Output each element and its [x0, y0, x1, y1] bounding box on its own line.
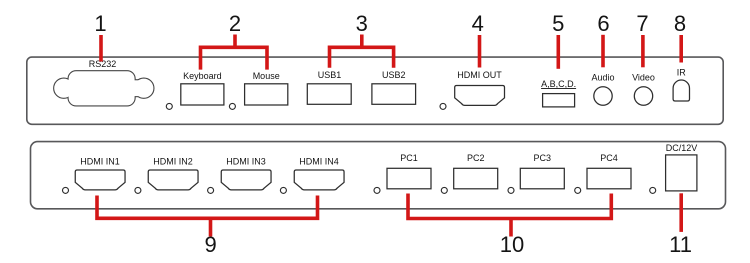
svg-text:USB2: USB2: [382, 70, 406, 80]
svg-text:7: 7: [636, 11, 648, 36]
svg-text:PC1: PC1: [400, 153, 418, 163]
svg-text:PC4: PC4: [600, 153, 618, 163]
svg-text:HDMI IN1: HDMI IN1: [80, 156, 120, 166]
svg-text:PC3: PC3: [534, 153, 552, 163]
svg-text:Keyboard: Keyboard: [183, 71, 222, 81]
svg-text:5: 5: [552, 11, 564, 36]
svg-text:USB1: USB1: [318, 70, 342, 80]
svg-text:Video: Video: [632, 73, 655, 83]
svg-text:1: 1: [94, 11, 106, 36]
svg-text:3: 3: [356, 11, 368, 36]
svg-text:HDMI IN4: HDMI IN4: [299, 156, 339, 166]
svg-text:4: 4: [472, 11, 484, 36]
svg-text:Audio: Audio: [591, 73, 614, 83]
svg-text:HDMI IN3: HDMI IN3: [226, 156, 266, 166]
svg-text:IR: IR: [677, 67, 687, 77]
svg-text:A,B,C,D.: A,B,C,D.: [541, 79, 576, 89]
svg-text:11: 11: [669, 232, 692, 257]
svg-text:9: 9: [204, 232, 216, 257]
svg-text:PC2: PC2: [467, 153, 485, 163]
svg-text:2: 2: [229, 11, 241, 36]
svg-text:HDMI IN2: HDMI IN2: [153, 156, 193, 166]
svg-text:HDMI OUT: HDMI OUT: [457, 70, 502, 80]
svg-text:10: 10: [500, 232, 524, 257]
svg-text:Mouse: Mouse: [253, 71, 280, 81]
svg-text:DC/12V: DC/12V: [666, 143, 698, 153]
svg-text:6: 6: [597, 11, 609, 36]
svg-text:8: 8: [674, 11, 686, 36]
